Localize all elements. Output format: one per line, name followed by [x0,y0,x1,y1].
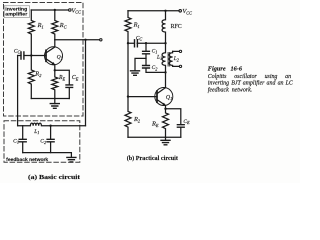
svg-text:L1: L1 [156,54,162,60]
wire: input feedback vertical (a) [17,56,19,126]
ground (amp a) [54,99,56,104]
wire: base wire (b) [128,96,157,98]
node B dot [164,71,166,73]
resistor RE (b) [163,109,169,137]
resistor RE (a) [52,70,58,98]
node: R1-R2-base junction [30,54,32,56]
wire: bottom rail (b) [128,136,181,138]
resistor R1 (b) [125,11,131,43]
ground (b) [165,137,167,140]
svg-text:L1: L1 [33,129,39,135]
wire: output feedback vertical (a) [85,40,87,126]
svg-text:CC: CC [14,48,21,54]
inverting amplifier label [4,6,29,18]
node: feedback tap on output [84,39,86,41]
capacitor C2 (a) [50,126,52,139]
resistor R2 (a) [28,56,34,99]
wire: collector vertical (b) [165,72,167,87]
svg-text:L2: L2 [173,56,180,62]
node: emitter junction (a) [54,69,56,71]
ground (feedback a) [67,157,76,162]
svg-text:RE: RE [58,75,66,81]
node: RC to supply rail [54,9,56,11]
wire: node A to RFC rail [146,42,166,44]
wire: feedback bottom rail (a) [23,153,72,158]
capacitor CC (a) [21,52,24,59]
wire: top supply rail (b) [128,10,179,12]
svg-text:CC: CC [136,35,143,41]
capacitor C1 (a) [22,126,24,139]
ground (tank b) [135,58,146,70]
wire: base wire (a) [24,55,46,57]
wire: amp ground rail (a) [31,98,69,100]
node: RFC tap on supply [164,10,166,12]
svg-text:inverting BJT amplifier and an: inverting BJT amplifier and an LC [208,80,293,87]
inverting amplifier dashed box [4,3,84,117]
resistor R1 (a) [28,10,34,56]
svg-text:RFC: RFC [171,24,182,30]
resistor R2 (b) [125,97,131,138]
svg-text:Figure16-6: Figure16-6 [208,66,243,73]
output terminal (a) [100,39,102,41]
capacitor CE (b) [166,109,181,125]
node: CC-R1 junction [127,42,129,44]
Vcc terminal (a) [69,9,72,12]
node A dot [164,42,166,44]
svg-text:C1: C1 [13,139,19,145]
L2 output terminals [179,50,181,52]
capacitor C1 (b) [145,43,147,51]
transistor Q1 (b) [155,88,173,106]
capacitor C2 (b) [143,66,150,69]
wire: top supply rail (a) [31,9,68,11]
Vcc terminal (b) [179,10,182,13]
node: C2 top junction [49,125,51,127]
wire: left rail (b) [127,43,129,96]
svg-text:CE: CE [72,75,79,81]
inductor L1 (a) [18,123,86,126]
svg-text:C2: C2 [152,65,159,71]
inductor L2 [169,51,172,66]
svg-text:feedback network: feedback network [6,157,48,162]
node: tank rail top junction [145,42,147,44]
svg-text:(b) Practical circuit: (b) Practical circuit [127,155,179,162]
svg-text:Q1: Q1 [57,54,63,60]
svg-text:CE: CE [183,119,190,125]
transformer core [168,53,170,67]
svg-text:amplifier: amplifier [5,12,27,17]
svg-text:Colpitts oscillator using an: Colpitts oscillator using an [208,74,291,80]
wire: output line (a) [55,39,100,41]
resistor RC (a) [52,10,58,40]
svg-text:C2: C2 [40,139,47,145]
svg-text:(a) Basic circuit: (a) Basic circuit [28,174,81,181]
capacitor CC (b) [128,42,146,44]
inductor L1 (b) [162,43,165,72]
svg-text:feedback network.: feedback network. [208,86,252,93]
inductor RFC [162,11,165,43]
node: emitter junction (b) [164,108,166,110]
node: base junction (b) [127,95,129,97]
capacitor CE (a) [55,70,70,84]
transistor Q1 (a) [44,47,62,65]
feedback network dashed box [4,121,80,163]
svg-text:Q1: Q1 [166,95,172,101]
